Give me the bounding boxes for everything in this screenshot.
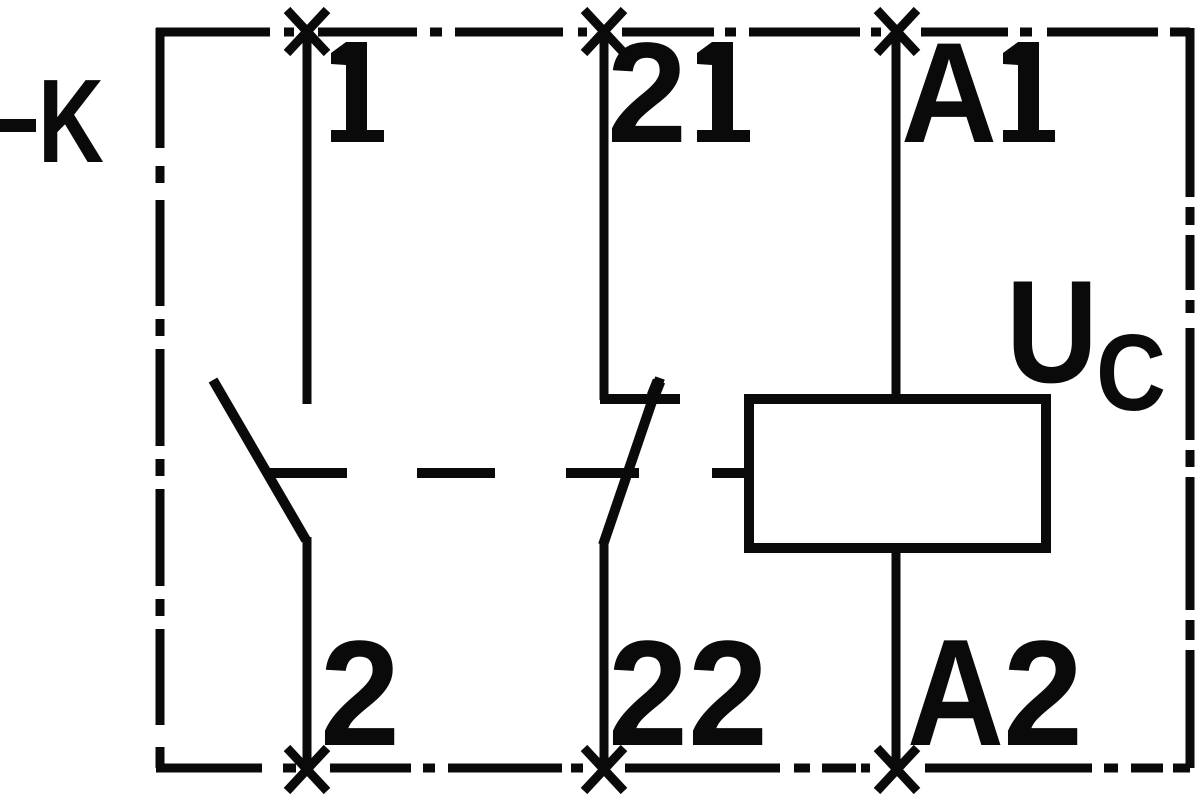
svg-text:C: C (1096, 312, 1166, 434)
svg-text:U: U (1006, 250, 1098, 413)
terminal cross X bottom pole 2 (287, 748, 327, 791)
svg-text:2: 2 (688, 609, 768, 777)
terminal label 1 (331, 42, 384, 142)
mechanical linkage dashed segment b (417, 468, 495, 478)
contact K2 NC moving blade (603, 378, 660, 545)
wire terminal A1 to coil (892, 28, 901, 396)
contact K2 blade tip (653, 381, 659, 396)
svg-text:K: K (38, 55, 104, 188)
mechanical linkage dashed segment c (566, 468, 639, 478)
coil K operating coil rectangle (749, 399, 1046, 548)
wire coil to terminal A2 (892, 551, 901, 768)
wire terminal 21 to contact (600, 28, 609, 400)
terminal cross X top pole 1 (287, 10, 327, 53)
enclosure border left dash-dot segments (156, 28, 165, 768)
wire contact to terminal 2 (303, 537, 312, 768)
mechanical linkage dashed segment d (712, 468, 746, 478)
terminal cross X bottom pole A2 (877, 748, 917, 791)
svg-text:A: A (901, 14, 997, 173)
terminal cross X top pole 21 (584, 10, 624, 53)
enclosure border top dash-dot segments (156, 28, 1190, 37)
enclosure border right dash-dot segments (1186, 28, 1195, 768)
mechanical linkage dashed segment a (268, 468, 347, 478)
contact K1 NO moving blade (213, 380, 306, 540)
terminal cross X top pole A1 (877, 10, 917, 53)
svg-text:2: 2 (1003, 609, 1083, 777)
svg-text:A: A (907, 608, 1004, 778)
terminal label A1 : digit 1 (1003, 42, 1055, 142)
svg-text:2: 2 (320, 609, 400, 777)
terminal cross X bottom pole 22 (584, 748, 624, 791)
wire contact to terminal 22 (600, 543, 609, 768)
svg-text:2: 2 (607, 14, 687, 173)
NC contact stop bar (600, 394, 680, 404)
terminal label 21 : digit 1 (697, 42, 750, 142)
enclosure border bottom dash-dot segments (156, 764, 1190, 773)
svg-text:2: 2 (608, 609, 688, 777)
wire terminal 1 to contact (303, 28, 312, 404)
device designator -K : minus (0, 119, 36, 132)
